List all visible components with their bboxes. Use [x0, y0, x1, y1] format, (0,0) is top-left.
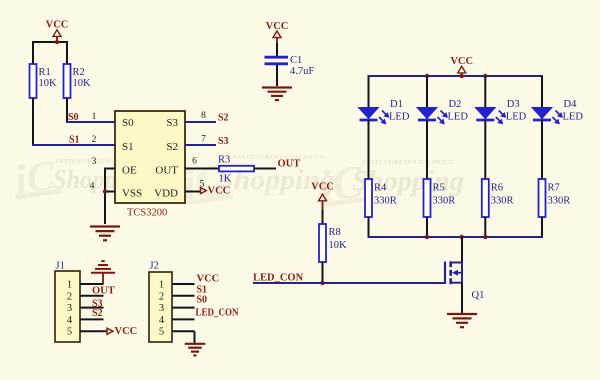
svg-text:S3: S3 [218, 136, 229, 147]
svg-text:Q1: Q1 [472, 290, 485, 301]
wire [80, 283, 104, 285]
wire [172, 283, 195, 285]
svg-text:LED: LED [389, 112, 410, 123]
svg-text:C1: C1 [290, 55, 302, 66]
svg-text:3: 3 [92, 157, 97, 167]
junction [55, 40, 59, 44]
svg-text:S0: S0 [68, 112, 79, 123]
wire [32, 41, 34, 64]
wire (D1 anode) [368, 76, 370, 108]
wire [322, 262, 324, 283]
wire [104, 168, 106, 225]
resistor R5 [424, 179, 456, 217]
svg-text:1: 1 [67, 280, 72, 291]
svg-text:OE: OE [122, 165, 137, 177]
svg-text:330R: 330R [491, 196, 514, 207]
svg-text:J2: J2 [150, 261, 159, 272]
svg-text:R8: R8 [329, 227, 341, 238]
wire [172, 318, 195, 320]
LED D4 [532, 99, 583, 124]
wire pin4 VSS [104, 191, 115, 193]
svg-text:S3: S3 [166, 117, 178, 129]
svg-text:4: 4 [67, 315, 73, 326]
svg-text:OUT: OUT [278, 159, 301, 170]
wire [322, 210, 324, 224]
wire [426, 120, 428, 179]
watermark iCShopping A [10, 152, 149, 204]
svg-text:LED: LED [563, 112, 584, 123]
resistor R2 [64, 64, 92, 98]
wire (D4 anode) [541, 76, 543, 108]
connector J1 body [55, 271, 80, 342]
resistor R6 [482, 179, 514, 217]
wire [541, 120, 543, 179]
svg-text:3: 3 [67, 303, 72, 314]
svg-text:TCS3200: TCS3200 [127, 208, 167, 219]
resistor R8 [319, 224, 347, 262]
wire [254, 168, 276, 170]
svg-text:VCC: VCC [208, 186, 231, 197]
junction [460, 74, 464, 78]
svg-text:6: 6 [192, 157, 197, 167]
wire [276, 65, 278, 86]
ground (Q1 source) [447, 314, 477, 327]
junction [320, 281, 324, 285]
resistor R1 [30, 64, 58, 98]
svg-text:LED_CON: LED_CON [196, 307, 239, 318]
wire [66, 41, 68, 64]
wire [66, 98, 68, 122]
svg-text:VDD: VDD [154, 188, 178, 200]
svg-text:2: 2 [92, 135, 97, 145]
svg-text:8: 8 [201, 111, 206, 121]
svg-text:2: 2 [159, 291, 164, 302]
svg-text:2: 2 [67, 291, 72, 302]
svg-text:3: 3 [159, 303, 164, 314]
capacitor C1 [265, 55, 315, 77]
IC U1 TCS3200 body [115, 111, 185, 203]
svg-text:330R: 330R [374, 196, 397, 207]
svg-text:D2: D2 [449, 99, 462, 110]
resistor R3 [218, 155, 254, 185]
svg-text:330R: 330R [433, 196, 456, 207]
LED D2 [417, 99, 468, 124]
wire (D2 anode) [426, 76, 428, 108]
power port VCC (R8) [311, 182, 334, 213]
svg-text:10K: 10K [73, 78, 92, 89]
wire [484, 217, 486, 238]
svg-text:330R: 330R [548, 196, 571, 207]
ground (C1) [262, 88, 292, 101]
wire pin3 OE [104, 168, 115, 170]
ground (J2 pin5) [185, 344, 206, 356]
svg-text:S1: S1 [69, 135, 80, 146]
svg-text:S2: S2 [166, 141, 178, 153]
wire LED bottom bus [368, 236, 544, 238]
wire LED top bus [368, 75, 370, 77]
wire [172, 307, 195, 309]
wire (Q1 source) [461, 283, 463, 313]
wire [33, 41, 67, 43]
svg-text:LED: LED [448, 112, 469, 123]
svg-text:J1: J1 [56, 261, 65, 272]
svg-text:S2: S2 [218, 113, 229, 124]
wire [541, 217, 543, 238]
power port VCC (pull-ups) [46, 20, 69, 42]
svg-text:VSS: VSS [122, 188, 142, 200]
svg-text:S0: S0 [122, 117, 134, 129]
svg-text:S0: S0 [197, 295, 208, 306]
junction [483, 235, 487, 239]
svg-text:4: 4 [159, 315, 165, 326]
svg-text:D4: D4 [564, 99, 578, 110]
svg-text:R5: R5 [433, 183, 445, 194]
svg-text:VCC: VCC [311, 182, 334, 193]
wire [80, 318, 104, 320]
watermark iCShopping B [177, 153, 335, 210]
svg-text:4: 4 [90, 182, 95, 192]
svg-text:R6: R6 [491, 183, 503, 194]
svg-text:R3: R3 [218, 155, 230, 166]
svg-text:VCC: VCC [115, 326, 138, 337]
svg-text:1: 1 [159, 280, 164, 291]
wire pin6 [185, 168, 219, 170]
junction [425, 235, 429, 239]
wire pin5 VDD [185, 191, 201, 193]
wire net S0 [66, 121, 115, 123]
wire [276, 43, 278, 57]
svg-text:7: 7 [201, 135, 206, 145]
wire [484, 120, 486, 179]
transistor Q1 (NMOS) [445, 261, 462, 284]
connector J2 body [149, 272, 172, 342]
wire [426, 217, 428, 238]
svg-text:OUT: OUT [92, 286, 115, 297]
power port VCC (C1) [266, 21, 289, 43]
wire [80, 307, 104, 309]
wire [194, 331, 196, 343]
junction [103, 189, 107, 193]
wire pin7 [185, 144, 216, 146]
LED D3 [475, 99, 526, 124]
svg-text:OUT: OUT [155, 165, 178, 177]
wire [80, 295, 104, 297]
resistor R4 [365, 179, 397, 217]
wire (D3 anode) [484, 76, 486, 108]
wire [368, 217, 370, 238]
wire (Q1 drain) [461, 237, 463, 263]
svg-text:1: 1 [92, 112, 97, 122]
svg-text:R2: R2 [73, 67, 85, 78]
svg-text:R4: R4 [374, 183, 387, 194]
wire pin8 [185, 121, 216, 123]
svg-text:4.7uF: 4.7uF [290, 66, 314, 77]
svg-text:S2: S2 [92, 308, 103, 319]
resistor R7 [539, 179, 571, 217]
power port VCC (J1 pin5) [107, 326, 137, 337]
ground (J1 pin1, inverted) [91, 261, 115, 284]
power port VCC (VDD pin) [201, 186, 231, 197]
svg-text:D3: D3 [507, 99, 520, 110]
wire [80, 330, 107, 332]
wire [32, 98, 34, 145]
svg-text:10K: 10K [39, 78, 58, 89]
wire [172, 330, 195, 332]
svg-text:5: 5 [159, 327, 164, 338]
svg-text:S1: S1 [122, 141, 134, 153]
svg-text:1K: 1K [219, 174, 232, 185]
svg-text:VCC: VCC [197, 274, 220, 285]
wire [172, 295, 195, 297]
svg-text:LED_CON: LED_CON [253, 273, 304, 284]
junction [425, 74, 429, 78]
wire [368, 120, 370, 179]
svg-text:R1: R1 [39, 67, 51, 78]
svg-text:10K: 10K [329, 240, 348, 251]
LED D1 [359, 99, 410, 124]
wire net S1 [32, 144, 115, 146]
junction [483, 74, 487, 78]
watermark iCShopping C [314, 155, 464, 212]
ground (IC VSS) [90, 227, 120, 241]
svg-text:D1: D1 [390, 99, 403, 110]
svg-text:LED: LED [506, 112, 527, 123]
wire net LED_CON [253, 282, 445, 284]
svg-text:5: 5 [67, 327, 72, 338]
power port VCC (LED bus) [450, 56, 473, 76]
svg-text:R7: R7 [548, 183, 560, 194]
junction [460, 235, 464, 239]
